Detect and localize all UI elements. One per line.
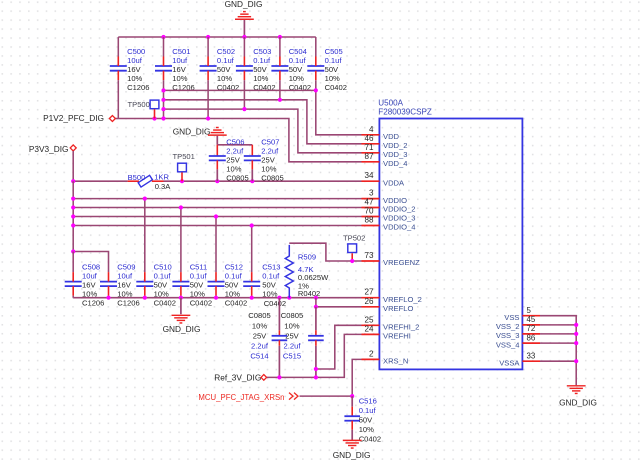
- svg-text:C1206: C1206: [117, 298, 139, 307]
- svg-text:16V: 16V: [117, 280, 131, 289]
- svg-text:72: 72: [527, 324, 536, 333]
- svg-text:VSS_2: VSS_2: [496, 322, 520, 331]
- capacitor C503: [236, 65, 253, 67]
- svg-text:VSS_3: VSS_3: [496, 331, 520, 340]
- svg-text:TP502: TP502: [343, 233, 365, 242]
- svg-text:C0805: C0805: [281, 311, 303, 320]
- svg-text:33: 33: [527, 351, 536, 360]
- wires VDDIO bus: [73, 198, 361, 200]
- svg-text:TP501: TP501: [173, 152, 195, 161]
- wire P3V3 stub: [72, 151, 74, 181]
- svg-text:2.2uf: 2.2uf: [226, 147, 244, 156]
- svg-text:C503: C503: [253, 47, 271, 56]
- capacitor C507: [251, 145, 253, 156]
- ground GND_DIG under C516: [343, 439, 362, 441]
- svg-text:50V: 50V: [289, 65, 303, 74]
- svg-text:10uf: 10uf: [117, 271, 133, 280]
- svg-text:5: 5: [527, 306, 532, 315]
- svg-text:0.1uf: 0.1uf: [289, 56, 307, 65]
- svg-text:C502: C502: [217, 47, 235, 56]
- svg-text:C500: C500: [127, 47, 145, 56]
- ground GND_DIG right: [567, 385, 586, 387]
- svg-text:Ref_3V_DIG: Ref_3V_DIG: [214, 373, 261, 383]
- svg-text:25V: 25V: [261, 156, 275, 165]
- pin 70 VDDIO_3: [362, 216, 380, 218]
- svg-text:2.2uf: 2.2uf: [251, 342, 269, 351]
- svg-text:10uf: 10uf: [127, 56, 143, 65]
- svg-text:0.1uf: 0.1uf: [217, 56, 235, 65]
- svg-text:50V: 50V: [225, 280, 239, 289]
- pin 86 VSS_4: [522, 342, 540, 344]
- wire C500 bottom lead: [117, 80, 119, 118]
- svg-text:10uf: 10uf: [82, 271, 98, 280]
- svg-text:10uf: 10uf: [172, 56, 188, 65]
- capacitor C506: [216, 145, 218, 156]
- wire tap C511: [180, 208, 182, 273]
- svg-text:16V: 16V: [82, 280, 96, 289]
- svg-text:86: 86: [527, 333, 536, 342]
- svg-text:GND_DIG: GND_DIG: [173, 127, 211, 137]
- svg-text:C513: C513: [262, 262, 280, 271]
- pin 25 VREFHI_2: [362, 324, 380, 326]
- svg-text:0.1uf: 0.1uf: [190, 271, 208, 280]
- svg-text:10%: 10%: [359, 425, 374, 434]
- svg-text:87: 87: [364, 152, 374, 161]
- svg-text:50V: 50V: [217, 65, 231, 74]
- svg-text:C510: C510: [154, 262, 172, 271]
- capacitor C505: [307, 65, 324, 67]
- svg-text:25: 25: [364, 315, 374, 324]
- wire tap C510: [144, 199, 146, 273]
- svg-text:VSSA: VSSA: [499, 358, 520, 367]
- wire VDD line2 to pin 46: [164, 100, 362, 144]
- svg-text:VDDIO_2: VDDIO_2: [383, 205, 416, 214]
- svg-text:C516: C516: [359, 396, 377, 405]
- ground GND_DIG under rail: [180, 298, 182, 315]
- pin 33 VSSA: [522, 360, 540, 362]
- svg-text:10%: 10%: [253, 74, 268, 83]
- svg-text:C0402: C0402: [190, 298, 212, 307]
- junction dots VDDA row: [71, 179, 75, 183]
- svg-text:C509: C509: [117, 262, 135, 271]
- svg-text:VDDIO: VDDIO: [383, 196, 407, 205]
- svg-text:47: 47: [364, 198, 374, 207]
- svg-text:C0402: C0402: [264, 299, 286, 308]
- svg-text:70: 70: [364, 207, 374, 216]
- wire rail2 to pin 26: [315, 298, 317, 307]
- svg-text:B500: B500: [128, 173, 146, 182]
- wires C500-C505 top leads: [117, 37, 119, 57]
- wire tap C513: [251, 226, 253, 273]
- svg-text:C504: C504: [289, 47, 307, 56]
- wire C508-C509 top link: [73, 252, 108, 273]
- IC U500A F280039CSPZ body: [379, 119, 522, 370]
- svg-text:VDDA: VDDA: [383, 178, 405, 187]
- svg-text:GND_DIG: GND_DIG: [225, 0, 263, 9]
- svg-text:VREFLO: VREFLO: [383, 304, 413, 313]
- pin 88 VDDIO_4: [362, 225, 380, 227]
- svg-text:0.1uf: 0.1uf: [325, 56, 343, 65]
- svg-text:TP500: TP500: [128, 100, 150, 109]
- junction dots VDDIO bus: [71, 197, 75, 201]
- pin 45 VSS_2: [522, 324, 540, 326]
- svg-text:25V: 25V: [226, 156, 240, 165]
- wire pin 24 VREFHI route: [316, 334, 362, 377]
- junction dots VSS: [574, 323, 578, 327]
- svg-text:GND_DIG: GND_DIG: [333, 450, 371, 460]
- svg-text:VDD_4: VDD_4: [383, 159, 407, 168]
- wire VSS bus: [540, 316, 576, 386]
- pin 4 VDD: [362, 134, 380, 136]
- svg-text:R0402: R0402: [298, 289, 320, 298]
- wire P1V2 line to pin 87: [115, 119, 361, 162]
- svg-text:50V: 50V: [325, 65, 339, 74]
- svg-text:2: 2: [369, 349, 374, 358]
- svg-text:1KR: 1KR: [154, 173, 169, 182]
- svg-text:10%: 10%: [252, 321, 267, 330]
- svg-text:C501: C501: [172, 47, 190, 56]
- svg-text:0.1uf: 0.1uf: [154, 271, 172, 280]
- svg-text:C0805: C0805: [226, 174, 248, 183]
- svg-text:73: 73: [364, 251, 374, 260]
- svg-text:4: 4: [369, 125, 374, 134]
- svg-text:VREFLO_2: VREFLO_2: [383, 295, 422, 304]
- wire top rail: [118, 36, 315, 38]
- svg-text:0.1uf: 0.1uf: [262, 271, 280, 280]
- svg-text:C0805: C0805: [248, 311, 270, 320]
- svg-text:10%: 10%: [289, 74, 304, 83]
- junction dots VDD routing: [161, 88, 165, 92]
- svg-text:26: 26: [364, 297, 374, 306]
- svg-text:P1V2_PFC_DIG: P1V2_PFC_DIG: [43, 113, 104, 123]
- svg-text:VDD: VDD: [383, 132, 400, 141]
- capacitor C504: [271, 65, 288, 67]
- svg-text:88: 88: [364, 216, 374, 225]
- pin 27 VREFLO_2: [362, 297, 380, 299]
- wire C504 bottom lead: [279, 80, 281, 100]
- wire C501 bottom lead: [163, 80, 165, 118]
- svg-text:10%: 10%: [325, 74, 340, 83]
- pin 5 VSS: [522, 315, 540, 317]
- junction dots top rail: [161, 35, 165, 39]
- svg-text:0.1uf: 0.1uf: [253, 56, 271, 65]
- svg-text:P3V3_DIG: P3V3_DIG: [29, 144, 69, 154]
- wire C503 bottom lead: [243, 80, 245, 109]
- svg-text:C1206: C1206: [127, 83, 149, 92]
- svg-text:50V: 50V: [154, 280, 168, 289]
- svg-text:C514: C514: [250, 352, 268, 361]
- svg-text:C506: C506: [226, 138, 244, 147]
- svg-text:25V: 25V: [285, 331, 299, 340]
- ferrite bead B500: [128, 180, 139, 182]
- svg-text:VDDIO_4: VDDIO_4: [383, 223, 416, 232]
- svg-text:GND_DIG: GND_DIG: [163, 324, 201, 334]
- svg-text:2.2uf: 2.2uf: [284, 342, 302, 351]
- wire VDDA row to pin 34: [164, 180, 362, 182]
- svg-text:VREFHI: VREFHI: [383, 332, 411, 341]
- svg-text:27: 27: [364, 288, 374, 297]
- pin 34 VDDA: [362, 180, 380, 182]
- wire pin 2 XRS_N route: [352, 359, 361, 396]
- svg-text:50V: 50V: [359, 415, 373, 424]
- svg-text:25V: 25V: [253, 331, 267, 340]
- svg-text:R509: R509: [298, 253, 316, 262]
- svg-text:VDDIO_3: VDDIO_3: [383, 214, 416, 223]
- svg-text:VSS: VSS: [504, 313, 519, 322]
- svg-text:46: 46: [364, 134, 374, 143]
- wire tap C512: [215, 217, 217, 273]
- svg-text:34: 34: [364, 171, 374, 180]
- wire XRSn row: [300, 395, 353, 397]
- capacitor C502: [200, 65, 217, 67]
- pin 46 VDD_2: [362, 143, 380, 145]
- capacitor C501: [155, 65, 172, 67]
- svg-text:10%: 10%: [226, 165, 241, 174]
- svg-text:C515: C515: [283, 352, 301, 361]
- svg-text:16V: 16V: [127, 65, 141, 74]
- wire P3V3 vertical: [72, 181, 74, 251]
- svg-text:16V: 16V: [172, 65, 186, 74]
- wires bottom leads to rail: [72, 296, 74, 298]
- svg-text:C512: C512: [225, 262, 243, 271]
- svg-text:50V: 50V: [190, 280, 204, 289]
- wire VDD line3 to pin 71: [164, 109, 362, 153]
- wire C505 bottom lead to pin 4: [316, 80, 362, 135]
- wire C502 bottom lead: [207, 80, 209, 118]
- wire VDD line1: [164, 89, 316, 91]
- svg-text:71: 71: [364, 143, 374, 152]
- capacitor C512: [208, 281, 225, 283]
- svg-text:10%: 10%: [172, 74, 187, 83]
- svg-text:VSS_4: VSS_4: [496, 340, 520, 349]
- svg-text:U500A: U500A: [378, 99, 403, 108]
- pin 3 VDDIO: [362, 198, 380, 200]
- pin 87 VDD_4: [362, 161, 380, 163]
- svg-text:10%: 10%: [261, 165, 276, 174]
- pin 72 VSS_3: [522, 333, 540, 335]
- svg-text:C507: C507: [261, 138, 279, 147]
- svg-text:45: 45: [527, 315, 536, 324]
- capacitor C509: [100, 281, 117, 283]
- wire C506-C507 rail: [217, 144, 252, 146]
- svg-text:C505: C505: [325, 47, 343, 56]
- capacitor C515: [315, 307, 317, 331]
- svg-text:0.1uf: 0.1uf: [225, 271, 243, 280]
- capacitor C511: [172, 281, 189, 283]
- svg-text:C0402: C0402: [359, 434, 381, 443]
- svg-text:3: 3: [369, 189, 374, 198]
- capacitor C510: [136, 281, 153, 283]
- svg-text:24: 24: [364, 324, 374, 333]
- svg-text:10%: 10%: [284, 321, 299, 330]
- wire Ref_3V row: [267, 376, 316, 378]
- svg-text:XRS_N: XRS_N: [383, 357, 408, 366]
- capacitor C514: [278, 298, 280, 331]
- svg-text:VDD_2: VDD_2: [383, 141, 407, 150]
- svg-text:C0402: C0402: [225, 298, 247, 307]
- capacitor C508: [65, 281, 82, 283]
- svg-text:0.1uf: 0.1uf: [359, 406, 377, 415]
- svg-text:VREGENZ: VREGENZ: [383, 258, 420, 267]
- pin 71 VDD_3: [362, 152, 380, 154]
- capacitor C513: [243, 281, 260, 283]
- pin 2 XRS_N: [362, 358, 380, 360]
- svg-text:10%: 10%: [217, 74, 232, 83]
- pin 73 VREGENZ: [362, 260, 380, 262]
- svg-text:C1206: C1206: [82, 298, 104, 307]
- svg-text:C0402: C0402: [154, 298, 176, 307]
- svg-text:0.3A: 0.3A: [155, 182, 172, 191]
- wire rail to pin 27: [73, 297, 361, 299]
- svg-text:2.2uf: 2.2uf: [261, 147, 279, 156]
- pin 24 VREFHI: [362, 333, 380, 335]
- svg-text:VREFHI_2: VREFHI_2: [383, 323, 419, 332]
- wire pin 25 VREFHI_2 route: [316, 325, 362, 369]
- capacitor C516: [351, 396, 353, 407]
- capacitor C500: [110, 65, 127, 67]
- svg-text:GND_DIG: GND_DIG: [559, 398, 597, 408]
- svg-text:C511: C511: [190, 262, 208, 271]
- pin 26 VREFLO: [362, 306, 380, 308]
- svg-text:C508: C508: [82, 262, 100, 271]
- svg-text:VDD_3: VDD_3: [383, 150, 407, 159]
- svg-text:50V: 50V: [253, 65, 267, 74]
- wire C508 top lead: [72, 252, 74, 273]
- resistor R509: [289, 243, 361, 261]
- junction dots rail1: [106, 296, 110, 300]
- pin 47 VDDIO_2: [362, 207, 380, 209]
- svg-text:10%: 10%: [127, 74, 142, 83]
- wire VDDA row left: [73, 180, 127, 182]
- svg-text:MCU_PFC_JTAG_XRSn: MCU_PFC_JTAG_XRSn: [198, 393, 284, 402]
- svg-text:C0805: C0805: [261, 174, 283, 183]
- svg-text:50V: 50V: [262, 280, 276, 289]
- svg-text:C0402: C0402: [325, 83, 347, 92]
- svg-text:F280039CSPZ: F280039CSPZ: [378, 107, 432, 116]
